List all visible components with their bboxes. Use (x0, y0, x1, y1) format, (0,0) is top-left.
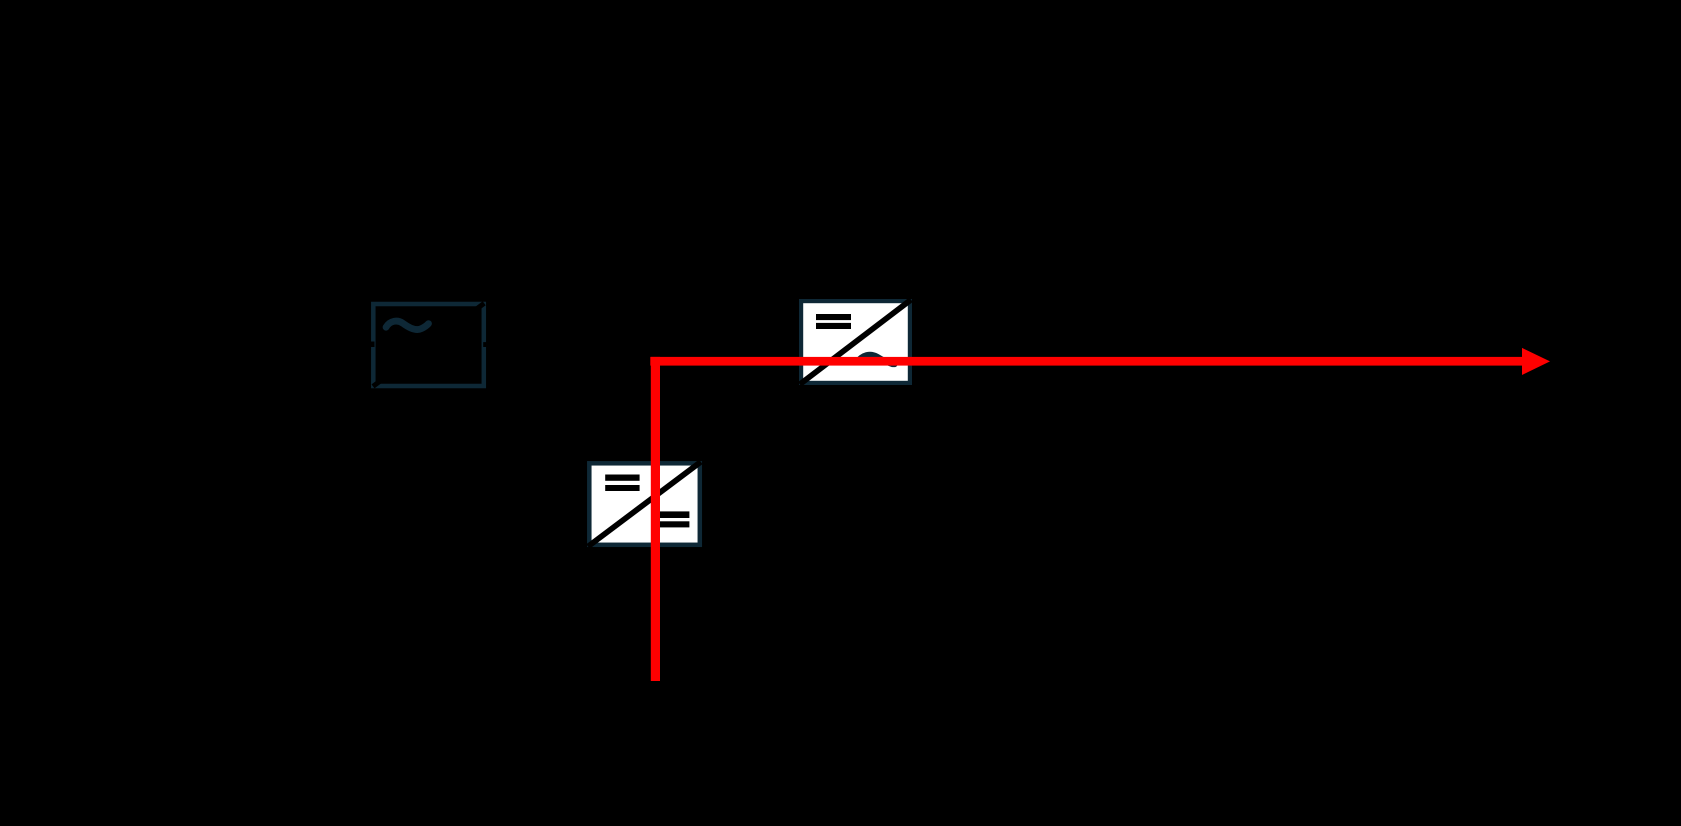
diagonal of U2 (588, 462, 701, 547)
ac source / rectifier U1 (dark style box) (369, 303, 488, 386)
red power-flow wire: horizontal segment (650, 357, 1522, 366)
dc/ac inverter U3 (800, 300, 911, 385)
dc symbol top-left of U3 (816, 314, 851, 320)
left pin notch of U1 (369, 342, 374, 348)
diagonal of U1 (black) (373, 303, 484, 386)
dc symbol bottom-right of U2 (655, 511, 689, 518)
tilde symbol of U1 (386, 321, 429, 329)
ac sine symbol bottom-right of U3 (856, 354, 895, 364)
diagonal of U3 (800, 300, 911, 385)
dc/dc converter U2 (588, 462, 701, 547)
right pin notch of U1 (483, 342, 488, 347)
red arrowhead (1522, 348, 1550, 375)
dc symbol top-left of U2 (605, 475, 639, 481)
red power-flow wire: vertical segment (651, 357, 660, 681)
